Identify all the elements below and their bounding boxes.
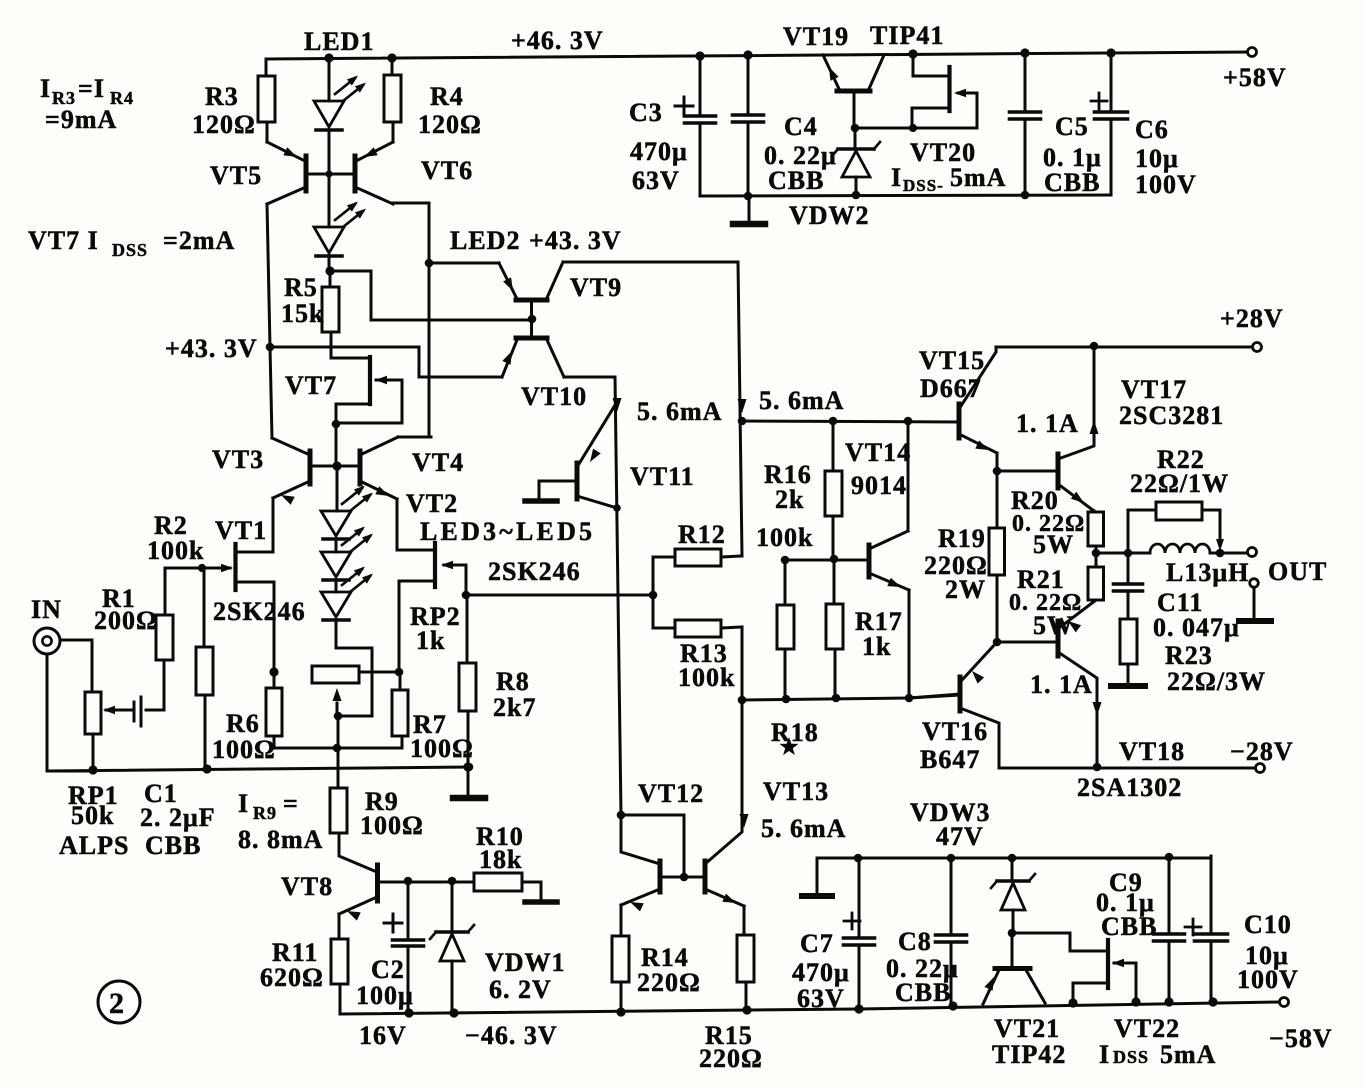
svg-text:I: I <box>1099 1040 1110 1069</box>
svg-text:DSS: DSS <box>1113 1047 1149 1067</box>
svg-text:VT13: VT13 <box>763 777 829 806</box>
svg-text:LED1: LED1 <box>304 27 374 56</box>
svg-text:−58V: −58V <box>1269 1024 1333 1053</box>
svg-text:1. 1A: 1. 1A <box>1016 409 1079 438</box>
svg-text:470μ: 470μ <box>630 137 688 166</box>
svg-text:VT8: VT8 <box>281 872 333 901</box>
svg-text:C2: C2 <box>371 955 405 984</box>
svg-text:CBB: CBB <box>145 831 201 860</box>
svg-text:R23: R23 <box>1165 641 1213 670</box>
svg-text:B647: B647 <box>920 745 980 774</box>
svg-text:2SA1302: 2SA1302 <box>1077 773 1182 802</box>
svg-text:9014: 9014 <box>851 471 907 500</box>
svg-text:VT7 I: VT7 I <box>28 226 99 255</box>
svg-text:VT3: VT3 <box>212 445 264 474</box>
svg-text:VT5: VT5 <box>210 161 262 190</box>
svg-text:2SK246: 2SK246 <box>488 557 581 586</box>
svg-text:47V: 47V <box>936 822 984 851</box>
svg-text:VDW2: VDW2 <box>789 201 870 230</box>
svg-text:100k: 100k <box>147 536 204 565</box>
svg-text:+43. 3V: +43. 3V <box>529 226 622 255</box>
svg-text:200Ω: 200Ω <box>94 606 158 635</box>
svg-text:−28V: −28V <box>1230 737 1294 766</box>
svg-text:VT1: VT1 <box>215 516 267 545</box>
svg-text:R12: R12 <box>678 520 726 549</box>
svg-text:8. 8mA: 8. 8mA <box>238 825 323 854</box>
svg-text:TIP42: TIP42 <box>992 1040 1066 1069</box>
svg-text:+58V: +58V <box>1223 63 1287 92</box>
svg-text:CBB: CBB <box>1101 912 1157 941</box>
svg-text:C7: C7 <box>800 929 834 958</box>
svg-text:100k: 100k <box>756 523 813 552</box>
svg-text:VDW1: VDW1 <box>485 948 566 977</box>
svg-text:100μ: 100μ <box>356 981 414 1010</box>
svg-text:100Ω: 100Ω <box>360 811 424 840</box>
svg-text:100V: 100V <box>1237 965 1299 994</box>
svg-text:VT19: VT19 <box>783 22 849 51</box>
svg-text:VT16: VT16 <box>922 717 988 746</box>
svg-text:VT9: VT9 <box>570 273 622 302</box>
svg-text:22Ω/3W: 22Ω/3W <box>1167 667 1266 696</box>
svg-text:100Ω: 100Ω <box>410 734 474 763</box>
svg-text:2: 2 <box>109 987 125 1020</box>
svg-text:R9: R9 <box>253 803 277 823</box>
svg-text:TIP41: TIP41 <box>870 21 944 50</box>
svg-text:5mA: 5mA <box>1160 1040 1216 1069</box>
svg-text:100V: 100V <box>1135 170 1197 199</box>
svg-text:220Ω: 220Ω <box>699 1044 763 1073</box>
svg-text:100k: 100k <box>678 663 735 692</box>
svg-text:2SC3281: 2SC3281 <box>1119 401 1224 430</box>
svg-text:100Ω: 100Ω <box>212 735 276 764</box>
svg-text:DSS: DSS <box>112 240 148 260</box>
svg-text:C3: C3 <box>629 98 663 127</box>
svg-text:VT22: VT22 <box>1114 1014 1180 1043</box>
svg-text:I: I <box>238 789 249 818</box>
svg-text:C6: C6 <box>1135 115 1169 144</box>
svg-text:L13μH: L13μH <box>1166 558 1249 587</box>
svg-text:620Ω: 620Ω <box>260 963 324 992</box>
svg-text:R4: R4 <box>430 82 464 111</box>
svg-text:5. 6mA: 5. 6mA <box>637 397 722 426</box>
svg-text:16V: 16V <box>359 1021 407 1050</box>
svg-text:ALPS: ALPS <box>59 831 129 860</box>
svg-text:VT10: VT10 <box>521 382 587 411</box>
svg-text:C10: C10 <box>1244 910 1292 939</box>
svg-text:+28V: +28V <box>1220 304 1284 333</box>
svg-text:5. 6mA: 5. 6mA <box>759 386 844 415</box>
svg-text:C8: C8 <box>898 927 932 956</box>
svg-text:CBB: CBB <box>768 166 824 195</box>
svg-text:VT18: VT18 <box>1119 737 1185 766</box>
svg-text:2SK246: 2SK246 <box>213 597 306 626</box>
svg-text:VT21: VT21 <box>994 1014 1060 1043</box>
svg-text:VT17: VT17 <box>1121 375 1187 404</box>
svg-text:VT12: VT12 <box>638 779 704 808</box>
svg-text:1. 1A: 1. 1A <box>1030 670 1093 699</box>
svg-text:220Ω: 220Ω <box>637 968 701 997</box>
svg-text:5W: 5W <box>1033 611 1074 640</box>
svg-text:+43. 3V: +43. 3V <box>165 334 258 363</box>
svg-text:OUT: OUT <box>1268 557 1327 586</box>
svg-text:VT11: VT11 <box>630 462 695 491</box>
svg-text:63V: 63V <box>632 166 680 195</box>
svg-text:R19: R19 <box>938 524 986 553</box>
svg-text:R3: R3 <box>205 82 239 111</box>
svg-text:63V: 63V <box>797 984 845 1013</box>
svg-text:2k: 2k <box>775 485 804 514</box>
svg-text:VT6: VT6 <box>421 156 473 185</box>
svg-text:120Ω: 120Ω <box>418 110 482 139</box>
svg-text:−46. 3V: −46. 3V <box>465 1021 558 1050</box>
svg-text:5. 6mA: 5. 6mA <box>761 814 846 843</box>
svg-text:=I: =I <box>78 74 105 103</box>
svg-text:R5: R5 <box>284 273 318 302</box>
svg-text:50k: 50k <box>71 801 114 830</box>
svg-text:CBB: CBB <box>1044 168 1100 197</box>
svg-text:6. 2V: 6. 2V <box>489 975 552 1004</box>
svg-text:VT2: VT2 <box>406 489 458 518</box>
svg-text:5mA: 5mA <box>950 163 1006 192</box>
svg-text:R18: R18 <box>771 718 819 747</box>
svg-text:C4: C4 <box>784 112 818 141</box>
svg-text:=: = <box>283 789 299 818</box>
svg-text:1k: 1k <box>416 626 445 655</box>
svg-text:1k: 1k <box>862 632 891 661</box>
svg-text:R6: R6 <box>226 709 260 738</box>
svg-text:D667: D667 <box>920 374 982 403</box>
svg-text:2k7: 2k7 <box>493 693 536 722</box>
svg-text:VT7: VT7 <box>285 371 337 400</box>
svg-text:=2mA: =2mA <box>163 226 235 255</box>
svg-text:+46. 3V: +46. 3V <box>511 26 604 55</box>
svg-text:5W: 5W <box>1033 530 1074 559</box>
svg-text:0. 047μ: 0. 047μ <box>1153 613 1240 642</box>
svg-text:C5: C5 <box>1055 112 1089 141</box>
svg-text:120Ω: 120Ω <box>192 110 256 139</box>
svg-text:I: I <box>40 74 51 103</box>
svg-text:VT14: VT14 <box>845 438 911 467</box>
svg-text:I: I <box>891 163 902 192</box>
svg-text:470μ: 470μ <box>792 958 850 987</box>
svg-text:10μ: 10μ <box>1135 144 1179 173</box>
svg-text:CBB: CBB <box>895 978 951 1007</box>
svg-text:2. 2μF: 2. 2μF <box>140 803 216 832</box>
svg-text:15k: 15k <box>281 299 324 328</box>
svg-text:R8: R8 <box>496 667 530 696</box>
svg-text:LED3~LED5: LED3~LED5 <box>420 517 595 546</box>
svg-text:18k: 18k <box>479 845 522 874</box>
svg-text:LED2: LED2 <box>450 226 520 255</box>
svg-text:2W: 2W <box>945 575 986 604</box>
svg-text:DSS-: DSS- <box>903 176 944 195</box>
svg-text:22Ω/1W: 22Ω/1W <box>1130 469 1229 498</box>
svg-text:VT15: VT15 <box>919 346 985 375</box>
svg-text:IN: IN <box>31 595 62 624</box>
svg-text:VT4: VT4 <box>412 448 464 477</box>
svg-text:=9mA: =9mA <box>45 105 117 134</box>
